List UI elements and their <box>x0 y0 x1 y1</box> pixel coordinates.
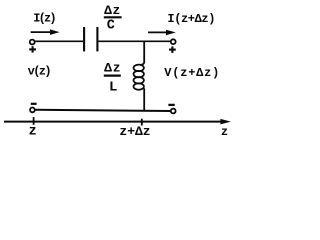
svg-text:C: C <box>107 19 115 34</box>
axis tick z+Δz <box>141 119 143 126</box>
svg-text:z+Δz: z+Δz <box>119 124 150 139</box>
svg-text:I(z): I(z) <box>33 11 56 25</box>
capacitor C right plate <box>96 27 98 51</box>
svg-text:v(z): v(z) <box>28 65 52 79</box>
terminal node bottom-right <box>171 109 176 114</box>
terminal node bottom-left <box>30 108 35 113</box>
wire top-left (node to capacitor) <box>35 40 83 42</box>
svg-text:z: z <box>29 124 37 139</box>
svg-text:L: L <box>109 79 117 95</box>
current arrow I(z+Δz) <box>148 30 176 36</box>
wire inductor stem bottom <box>143 88 145 110</box>
svg-text:Δz: Δz <box>104 3 120 18</box>
minus sign bottom-left <box>31 103 37 105</box>
wire top-right (capacitor to node) <box>98 40 171 42</box>
plus sign top-right <box>169 46 176 53</box>
axis tick z <box>33 117 35 125</box>
svg-text:Δz: Δz <box>104 61 120 76</box>
plus sign top-left <box>29 46 36 52</box>
z axis line <box>4 119 231 125</box>
terminal node top-left <box>30 40 35 45</box>
wire bottom (return conductor) <box>35 110 171 111</box>
inductor L coil <box>134 65 144 90</box>
terminal node top-right <box>171 39 176 44</box>
wire inductor stem top <box>141 41 145 65</box>
value label Δz/L <box>104 61 121 96</box>
svg-text:V(z+Δz): V(z+Δz) <box>164 66 219 80</box>
current arrow I(z) <box>31 29 60 35</box>
capacitor C left plate <box>83 27 85 51</box>
svg-text:z: z <box>221 125 228 139</box>
value label Δz/C <box>104 3 122 33</box>
svg-text:I(z+Δz): I(z+Δz) <box>167 12 215 26</box>
minus sign bottom-right <box>168 104 174 106</box>
